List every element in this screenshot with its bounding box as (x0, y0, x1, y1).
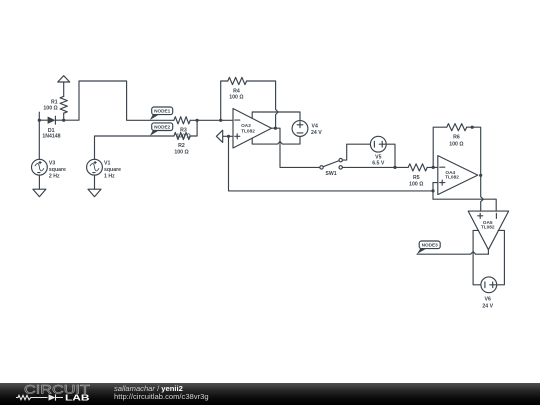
wire R3 to OA2 inverting input (190, 119, 233, 121)
ground under V3 (33, 189, 46, 197)
wire R2 up to R3 node (190, 120, 197, 136)
wire OA2 output down to SW1 (272, 128, 320, 167)
svg-text:NODE2: NODE2 (154, 125, 171, 130)
resistor R4 (228, 77, 247, 84)
OA5 plus marker (478, 213, 483, 218)
logo resistor glyph (16, 395, 48, 399)
wire node B detour to R3 (64, 81, 174, 120)
voltage source V4 (292, 121, 308, 137)
svg-text:100 Ω: 100 Ω (43, 106, 57, 112)
OA2 minus marker (235, 119, 240, 121)
svg-text:100 Ω: 100 Ω (229, 95, 243, 101)
wire node A to D1 anode (39, 119, 47, 121)
op-amp OA2 (233, 109, 272, 149)
wire SW1 to R5 (342, 166, 408, 168)
svg-text:2 Hz: 2 Hz (49, 174, 60, 180)
svg-text:TL082: TL082 (481, 224, 495, 230)
junction at R6 lead (471, 126, 474, 129)
wire R5 to OA4 inverting input (427, 166, 438, 168)
wire D1 cathode to node B (55, 119, 63, 121)
voltage source V6 (481, 277, 497, 293)
wire up to R4 (221, 81, 228, 120)
voltage source V1 (87, 159, 103, 175)
svg-text:SW1: SW1 (325, 171, 336, 177)
svg-text:V6: V6 (485, 297, 491, 303)
svg-text:TL082: TL082 (241, 129, 255, 135)
CircuitLab logo (0, 383, 110, 405)
net flag NODE2 (150, 123, 173, 136)
logo diode glyph (49, 394, 56, 400)
wire node A down to V3 (38, 120, 40, 159)
resistor R1 (60, 96, 67, 113)
wire stub above node A (38, 112, 40, 120)
wire arrow to OA2 plus (223, 135, 233, 137)
svg-text:square: square (104, 167, 121, 173)
wire to OA5 inverting input (433, 199, 496, 211)
resistor R6 (447, 124, 467, 131)
wire vertical at OA4 plus (432, 183, 434, 200)
net flag NODE3 (417, 241, 440, 254)
junction OA4 output (479, 174, 482, 177)
resistor R2 (174, 132, 190, 139)
wire V5 down to R5 node (386, 144, 395, 167)
junction node A (V3/diode) (38, 119, 41, 122)
wire R1 to node (63, 113, 65, 120)
svg-text:6.5 V: 6.5 V (372, 161, 385, 167)
svg-text:24 V: 24 V (482, 303, 493, 309)
credit text (114, 385, 209, 403)
wire OA2 plus node to OA4 plus node (229, 136, 434, 191)
svg-text:R5: R5 (413, 175, 420, 181)
svg-text:V1: V1 (104, 160, 110, 166)
junction OA2 plus node (227, 135, 230, 138)
wire OA2 V- pin to V4 minus with hop over output wire (252, 136, 300, 144)
svg-text:R6: R6 (453, 135, 460, 141)
OA2 plus marker (235, 134, 240, 139)
junction R3/R2 node (196, 119, 199, 122)
svg-text:NODE1: NODE1 (154, 109, 171, 114)
wire up to R6 (433, 127, 447, 167)
footer bar (0, 383, 540, 405)
resistor R3 (174, 117, 190, 124)
wire NODE3 to OA5 output with hop over rail (417, 252, 488, 255)
resistor R5 (408, 164, 427, 171)
junction OA4 inverting node (432, 166, 435, 169)
svg-text:100 Ω: 100 Ω (409, 182, 423, 188)
junction V5/R5 node (393, 166, 396, 169)
switch SW1 (320, 158, 343, 169)
wire OA4 output to OA5 plus input with hop (481, 175, 484, 211)
svg-text:V5: V5 (375, 154, 381, 160)
ground under V1 (88, 189, 101, 197)
svg-text:24 V: 24 V (311, 130, 322, 136)
svg-text:R2: R2 (178, 143, 185, 149)
OA4 minus marker (440, 166, 445, 168)
wire SW1 throw up to V5 (342, 144, 370, 160)
svg-text:LAB: LAB (65, 392, 90, 402)
svg-text:100 Ω: 100 Ω (174, 150, 188, 156)
junction OA2 output (274, 127, 277, 130)
diode D1 (48, 116, 56, 124)
wire from arrow to R1 (63, 82, 65, 96)
wire R4 to OA2 output with hop over V4 rail (247, 81, 279, 128)
up-arrow terminal (net flag) (58, 76, 70, 82)
svg-text:100 Ω: 100 Ω (449, 141, 463, 147)
wire R6 to OA4 output (467, 127, 481, 175)
net flag NODE1 (150, 107, 173, 120)
OA4 plus marker (440, 180, 445, 185)
op-amp OA5 (468, 211, 508, 250)
left-arrow terminal at OA2 plus input (216, 130, 222, 142)
wire OA5 V+ pin to V6 (473, 230, 481, 284)
wire OA2 V+ pin to V4 plus (252, 112, 300, 121)
wire V3 to ground (38, 175, 40, 189)
svg-text:V3: V3 (49, 160, 55, 166)
svg-text:OA2: OA2 (241, 123, 251, 129)
wire OA5 V- pin to V6 (497, 230, 505, 284)
junction node B (R1/D1) (62, 119, 65, 122)
wire OA5 output stub (487, 250, 489, 255)
svg-text:square: square (49, 167, 66, 173)
svg-text:NODE3: NODE3 (422, 243, 439, 248)
svg-text:V4: V4 (312, 124, 318, 130)
wire V1 up and right to R2 (95, 136, 174, 159)
op-amp OA4 (438, 156, 478, 195)
wire V1 to ground (94, 175, 96, 189)
OA5 minus marker (495, 213, 497, 218)
svg-text:TL082: TL082 (445, 175, 459, 181)
svg-text:1N4148: 1N4148 (42, 134, 60, 140)
voltage source V5 (370, 136, 386, 152)
voltage source V3 (32, 159, 48, 175)
wire stub into OA4 plus input (433, 182, 438, 184)
junction OA2 inverting node (219, 119, 222, 122)
svg-text:1 Hz: 1 Hz (104, 174, 115, 180)
junction OA4 plus node (431, 189, 434, 192)
